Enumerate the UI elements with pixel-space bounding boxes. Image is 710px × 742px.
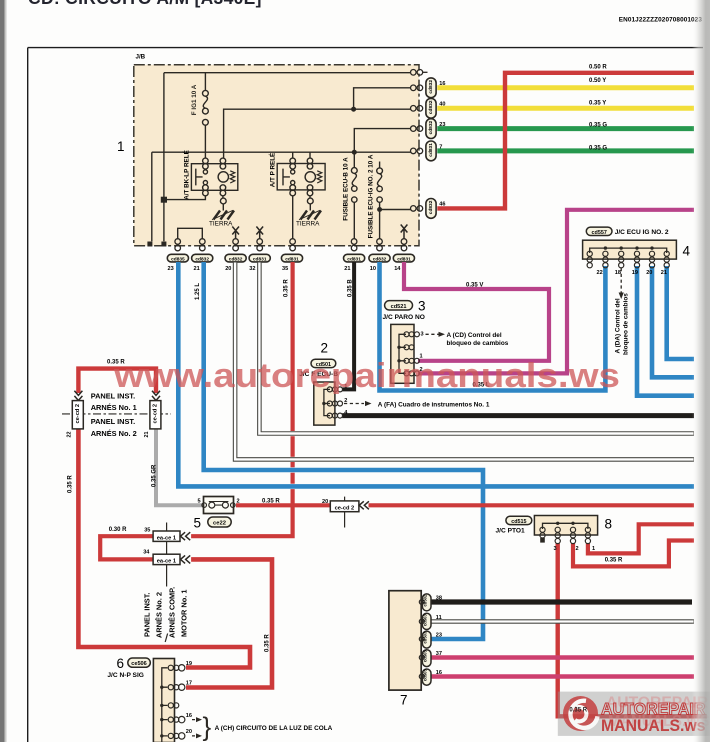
svg-text:17: 17 [186, 681, 192, 687]
svg-text:cd505: cd505 [423, 668, 428, 681]
J/C PTO1 body [534, 516, 597, 536]
wire crimson component 7 pin 16 [431, 674, 694, 678]
internal bus [543, 523, 588, 529]
fuse FUSIBLE ECU-IG NO.2 10 A [377, 162, 411, 239]
svg-text:cd503: cd503 [423, 613, 428, 626]
svg-text:ce-cd 2: ce-cd 2 [75, 404, 81, 424]
svg-text:cd521: cd521 [391, 304, 407, 310]
wire 0.35 R ea-ce 1 34 to J/C N-P SIG pin 17 [186, 559, 272, 687]
connector ea-ce 1 pin 34 [153, 554, 180, 564]
svg-text:ARNÉS No. 2: ARNÉS No. 2 [91, 429, 137, 438]
svg-text:10: 10 [370, 266, 376, 272]
wire L cd557 pin 19 [637, 266, 694, 396]
internal bus [162, 668, 168, 742]
connector cd831 pin 14 [393, 239, 414, 262]
svg-text:cd831: cd831 [285, 257, 299, 263]
svg-text:cd502: cd502 [423, 594, 428, 607]
svg-text:0.35 Y: 0.35 Y [589, 101, 606, 107]
J/B junction block body [134, 65, 419, 246]
svg-text:ARNÉS No. 2: ARNÉS No. 2 [155, 592, 164, 638]
wire W1 top bus to right pin row1 [164, 72, 411, 74]
svg-text:A/T BK-LP RELÉ: A/T BK-LP RELÉ [182, 150, 191, 200]
connector cd831 pin 7 [411, 141, 437, 161]
svg-text:14: 14 [394, 266, 401, 272]
wire 0.50 R pin 46 [437, 73, 694, 209]
wire 0.35 GR ce-cd 2 21 to ce22 [156, 429, 204, 505]
svg-text:4: 4 [683, 244, 691, 259]
wire B component 7 pin 38 [431, 599, 692, 604]
svg-text:22: 22 [67, 432, 73, 438]
harness divider line [166, 523, 168, 587]
internal bus [324, 389, 330, 415]
pins [540, 527, 591, 543]
svg-text:FUSIBLE ECU-B 10 A: FUSIBLE ECU-B 10 A [343, 157, 350, 221]
svg-text:TIERRA: TIERRA [209, 221, 233, 228]
svg-text:F IG1 10 A: F IG1 10 A [191, 84, 198, 115]
wire B J/C F ECU-B pin 4 [342, 413, 694, 418]
svg-text:cd832: cd832 [229, 257, 243, 263]
relay A/T BK-LP RELE [162, 158, 238, 210]
wire 0.35 R panel harness to J/C N-P SIG pin 19 [78, 429, 250, 668]
J/C ECU IG NO.2 body [583, 240, 677, 259]
svg-text:cd831: cd831 [347, 257, 361, 263]
connector oval cd521 [385, 301, 413, 310]
svg-text:bloqueo de cambios: bloqueo de cambios [447, 340, 509, 347]
pin ovals [422, 594, 431, 685]
svg-text:A (CH) CIRCUITO DE LA LUZ DE C: A (CH) CIRCUITO DE LA LUZ DE COLA [215, 725, 333, 732]
J/C F ECU-B body [314, 382, 335, 425]
connector cd832 pin 10 [369, 239, 390, 262]
svg-text:0.35 R: 0.35 R [68, 475, 74, 493]
svg-text:6: 6 [117, 656, 125, 671]
wire 0.35 G pin 23 [437, 126, 694, 131]
svg-text:37: 37 [436, 651, 442, 657]
svg-text:cd503: cd503 [423, 631, 428, 644]
svg-text:5: 5 [198, 499, 201, 505]
svg-text:20: 20 [186, 729, 192, 735]
no-connection X above cd831 pin 32 [256, 227, 263, 239]
wire R J/C PTO1 pin 3 down [558, 544, 707, 717]
svg-text:21: 21 [144, 432, 150, 438]
connector oval cd501 [311, 359, 336, 367]
svg-text:cd515: cd515 [511, 519, 526, 525]
svg-text:0.35 B: 0.35 B [348, 279, 354, 297]
svg-text:cd832: cd832 [428, 120, 434, 134]
svg-text:23: 23 [168, 266, 174, 272]
wire R from ce-cd 2 20 to right edge [369, 503, 695, 507]
svg-text:}: } [203, 712, 212, 742]
contacts [291, 170, 295, 174]
pins (6) [587, 251, 669, 268]
svg-text:3: 3 [554, 546, 557, 552]
svg-text:PANEL INST.: PANEL INST. [91, 417, 136, 426]
harness boundary line [62, 413, 171, 415]
wire W3 left drop to spare pin [151, 152, 153, 241]
svg-text:1: 1 [592, 546, 595, 552]
svg-text:20: 20 [322, 499, 328, 505]
wire white cd831 pin 32 [259, 262, 694, 434]
svg-text:18: 18 [615, 270, 621, 276]
wire 0.50 Y pin 16 [437, 85, 694, 90]
wire pin23 row branch [354, 129, 411, 153]
svg-text:5: 5 [194, 516, 202, 531]
svg-text:TIERRA: TIERRA [296, 221, 320, 228]
connector cd831 pin 32 [249, 239, 270, 262]
svg-text:0.35 R: 0.35 R [605, 558, 623, 564]
fuse F IG1 10 A [203, 73, 209, 159]
svg-text:21: 21 [194, 266, 200, 272]
branch to pin 46 row [380, 209, 411, 211]
page frame left edge [27, 48, 29, 742]
internal bus [590, 248, 667, 253]
wire W2 fuse IG1 output to pin 40 row [224, 109, 411, 158]
svg-text:2: 2 [576, 546, 579, 552]
component 7 body [389, 591, 421, 690]
connector ea-ce 1 pin 35 [153, 531, 180, 541]
svg-text:19: 19 [186, 661, 192, 667]
svg-text:ce506: ce506 [131, 661, 147, 667]
switch output down to connector 35 [292, 196, 294, 239]
svg-text:CD: CIRCUITO A/M [A340E]: CD: CIRCUITO A/M [A340E] [28, 0, 262, 8]
svg-text:bloqueo de cambios: bloqueo de cambios [623, 293, 630, 355]
svg-text:cd832: cd832 [428, 80, 434, 94]
wire 0.35 R J/C PTO1 pin 2 [573, 541, 694, 567]
svg-text:J/C N-P SIG: J/C N-P SIG [107, 672, 144, 679]
connector cd835 pin 23 [167, 239, 188, 262]
top pin wires to W3 [293, 152, 310, 158]
spare square terminals on J/B bottom edge [147, 242, 152, 247]
wire 0.35 R cd831 pin 35 to ea-ce 1 (with hops) [191, 262, 293, 536]
svg-text:0.35 V: 0.35 V [466, 283, 483, 289]
wire pin16 row branch [354, 88, 411, 109]
svg-text:ce-cd 2: ce-cd 2 [153, 404, 159, 424]
connector oval ce506 [128, 658, 151, 667]
svg-text:0.50 R: 0.50 R [589, 65, 607, 71]
svg-text:cd831: cd831 [428, 143, 434, 157]
wire crimson component 7 pin 37 [431, 655, 694, 659]
page frame top edge [28, 47, 703, 49]
svg-text:A/T P RELÉ: A/T P RELÉ [268, 153, 277, 188]
svg-text:cd831: cd831 [253, 257, 267, 263]
wire 0.35 R J/C PTO1 pin 1 [588, 524, 694, 553]
svg-text:16: 16 [186, 713, 192, 719]
wire 0.35 V pin 14 to J/C PARO NO pin 1 [404, 262, 549, 361]
wire 0.35 Y pin 40 [437, 106, 694, 111]
coil output to ground [309, 196, 311, 198]
connector ce-cd 2 pin 21 [150, 401, 161, 429]
swirl emblem [563, 696, 598, 731]
ground TIERRA 1 [212, 210, 234, 219]
svg-text:J/C PARO NO: J/C PARO NO [383, 314, 425, 321]
svg-text:cd832: cd832 [428, 200, 434, 214]
svg-text:32: 32 [249, 266, 255, 272]
coil [305, 172, 315, 182]
contact top [203, 170, 207, 174]
connector ce-cd 2 pin 22 [72, 401, 83, 429]
svg-text:19: 19 [632, 270, 638, 276]
connector cd832 pin 23 [411, 119, 437, 139]
coil output to ground [222, 196, 224, 198]
internal bridge pins 23-21 [178, 228, 203, 239]
relay pins bottom [203, 185, 209, 191]
svg-text:ce22: ce22 [213, 521, 226, 527]
arrows into connectors [74, 391, 160, 401]
connector cd831 pin 21 [344, 239, 365, 262]
svg-text:3: 3 [421, 332, 424, 338]
svg-text:0.35 G: 0.35 G [589, 146, 607, 152]
wire 0.35 L cd557 pin 22 to cd832 pin 10 [380, 262, 606, 391]
armature bar [283, 169, 290, 186]
svg-text:38: 38 [436, 596, 442, 602]
svg-text:2: 2 [321, 341, 329, 356]
svg-text:ARNÉS No. 1: ARNÉS No. 1 [91, 403, 137, 412]
wire 0.35 R bridge between ce-cd 2 connectors [78, 369, 156, 393]
internal bus [399, 334, 406, 373]
svg-text:cd832: cd832 [373, 257, 387, 263]
svg-text:ea-ce 1: ea-ce 1 [157, 559, 176, 565]
svg-text:35: 35 [144, 528, 150, 534]
wire white component 7 pin 11 [431, 619, 694, 623]
wire V1 left vertical from W1 [163, 73, 165, 242]
svg-text:MOTOR No. 1: MOTOR No. 1 [180, 590, 189, 638]
svg-text:ea-ce 1: ea-ce 1 [157, 535, 176, 541]
wire 1.25 L cd832 pin 21 to component 7 pin 23 [204, 262, 483, 639]
relay pins top [203, 158, 209, 164]
wire 0.30 R ea-ce 1 35 to 34 loop [100, 536, 153, 559]
dashed arrow pin 18 [620, 268, 622, 293]
svg-text:AUTOREPAIR: AUTOREPAIR [601, 701, 706, 719]
svg-text:1: 1 [117, 139, 125, 154]
wire L cd557 pin 20 [652, 266, 694, 377]
svg-text:PANEL INST.: PANEL INST. [143, 593, 152, 638]
svg-text:A (CD) Control del: A (CD) Control del [447, 332, 502, 339]
ce22 body [204, 497, 234, 514]
svg-text:8: 8 [605, 517, 613, 532]
svg-text:3: 3 [418, 299, 426, 314]
svg-text:0.35 GR: 0.35 GR [152, 464, 158, 487]
junction dot W3/fuse ECU-B [353, 150, 357, 154]
svg-text:J/C PTO1: J/C PTO1 [496, 527, 526, 534]
svg-text:11: 11 [436, 615, 442, 621]
svg-text:ARNÉS COMP.: ARNÉS COMP. [168, 587, 177, 638]
svg-text:0.35 R: 0.35 R [284, 279, 290, 297]
wire 0.35 V J/C PARO NO pin 2 out [418, 210, 694, 374]
wire W3 bus to pin 7 row [152, 151, 411, 153]
svg-text:21: 21 [344, 266, 350, 272]
svg-text:21: 21 [661, 270, 667, 276]
svg-text:1.25 L: 1.25 L [195, 283, 201, 300]
svg-text:MANUALS.ws: MANUALS.ws [601, 717, 706, 735]
scanner left dark strip [0, 0, 5, 742]
connector oval cd515 [506, 516, 532, 524]
wire white cd832 pin 20 [235, 262, 694, 459]
pins top [290, 158, 296, 164]
connector cd832 pin 46 [411, 199, 437, 219]
coil [218, 172, 228, 182]
connector oval cd557 [586, 227, 612, 235]
wire 0.35 G pin 7 [437, 148, 694, 153]
switch output wire to V1 [164, 196, 206, 200]
svg-text:ce-cd 2: ce-cd 2 [335, 506, 355, 512]
svg-text:cd505: cd505 [423, 649, 428, 662]
wire blue cd835 pin 23 [178, 262, 694, 486]
svg-text:cd557: cd557 [592, 230, 607, 236]
relay A/T P RELE [277, 152, 325, 239]
pins [327, 387, 342, 418]
wire 0.35 B cd831 pin 21 to J/C F ECU-B pin 1 [342, 262, 354, 389]
svg-text:cd832: cd832 [428, 100, 434, 114]
pins [404, 332, 419, 376]
connector cd832 pin 40 [411, 98, 437, 118]
J/C N-P SIG body [153, 659, 174, 742]
svg-text:22: 22 [597, 270, 603, 276]
wire L cd557 pin 21 [667, 266, 694, 359]
pins [168, 665, 185, 740]
svg-text:cd832: cd832 [195, 257, 209, 263]
svg-text:A (DA) Control del: A (DA) Control del [615, 298, 622, 353]
svg-text:35: 35 [282, 266, 288, 272]
svg-text:2: 2 [237, 499, 240, 505]
svg-text:0.35 R: 0.35 R [262, 499, 280, 505]
svg-text:16: 16 [436, 670, 442, 676]
fuse FUSIBLE ECU-B 10 A [351, 152, 357, 239]
svg-text:0.35 R: 0.35 R [265, 634, 271, 652]
svg-text:23: 23 [436, 633, 442, 639]
no-connection X above cd832 pin 20 [232, 227, 239, 239]
junction dot W2/pin16 [352, 107, 356, 111]
svg-text:0.50 Y: 0.50 Y [589, 78, 606, 84]
J/B dash-dot border [134, 65, 419, 246]
page curl right edge [692, 0, 710, 742]
svg-text:www.autorepairmanuals.ws: www.autorepairmanuals.ws [113, 357, 620, 395]
svg-text:cd835: cd835 [171, 257, 185, 263]
svg-text:7: 7 [400, 693, 408, 708]
connector cd832 pin 21 [192, 239, 213, 262]
armature bar [196, 169, 203, 186]
svg-text:EN01J22ZZZ020708001023: EN01J22ZZZ020708001023 [619, 17, 703, 24]
svg-text:cd831: cd831 [397, 257, 411, 263]
svg-text:FUSIBLE ECU-IG NO. 2 10 A: FUSIBLE ECU-IG NO. 2 10 A [368, 154, 375, 238]
wire 0.35 R ce22 to ce-cd 2 20 [236, 503, 330, 507]
svg-text:0.30 R: 0.30 R [109, 527, 127, 533]
svg-text:20: 20 [646, 270, 652, 276]
svg-text:J/C ECU IG NO. 2: J/C ECU IG NO. 2 [615, 229, 669, 236]
dashed arrows pins 16 and 20 [192, 719, 198, 721]
svg-text:A (FA) Cuadro de instrumentos: A (FA) Cuadro de instrumentos No. 1 [378, 401, 490, 408]
connector cd831 pin 35 [281, 239, 302, 262]
ground TIERRA 2 [299, 210, 321, 219]
no-connection X above cd831 pin 14 [401, 225, 408, 239]
connector cd832 pin 16 [411, 78, 437, 98]
pins bottom [290, 185, 296, 191]
svg-text:0.35 G: 0.35 G [589, 123, 607, 129]
contact bottom [203, 181, 207, 185]
svg-text:20: 20 [225, 266, 231, 272]
svg-text:J/B: J/B [136, 54, 146, 61]
J/C PARO NO body [391, 324, 414, 383]
svg-text:0.35 R: 0.35 R [569, 708, 587, 714]
svg-text:34: 34 [143, 550, 150, 556]
pin row 1 stub [411, 70, 428, 76]
connector cd832 pin 20 [225, 239, 246, 262]
connector oval ce22 [208, 517, 231, 527]
